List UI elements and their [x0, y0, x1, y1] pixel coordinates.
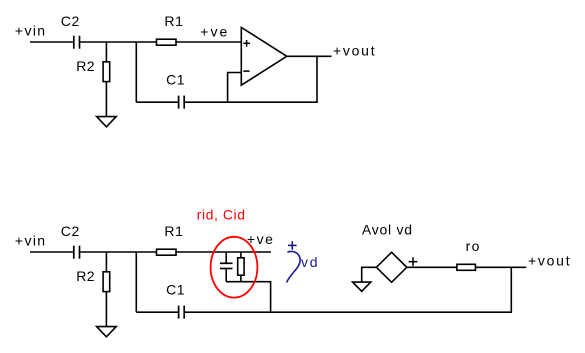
svg-text:C1: C1 [166, 282, 185, 298]
svg-text:Avol vd: Avol vd [362, 222, 412, 238]
svg-text:+ve: +ve [200, 23, 227, 39]
svg-text:vd: vd [301, 254, 318, 270]
svg-text:ro: ro [466, 238, 480, 254]
svg-text:rid, Cid: rid, Cid [197, 206, 245, 222]
svg-text:C2: C2 [61, 13, 80, 29]
svg-text:R2: R2 [76, 58, 95, 74]
svg-text:+vin: +vin [15, 233, 45, 249]
svg-text:+vin: +vin [15, 23, 45, 39]
svg-text:+vout: +vout [333, 42, 375, 58]
svg-text:+ve: +ve [247, 231, 273, 247]
svg-text:R1: R1 [164, 13, 183, 29]
svg-text:C1: C1 [166, 72, 185, 88]
svg-text:C2: C2 [61, 223, 80, 239]
svg-text:R2: R2 [76, 268, 95, 284]
svg-text:+vout: +vout [528, 252, 570, 268]
svg-text:R1: R1 [164, 223, 183, 239]
